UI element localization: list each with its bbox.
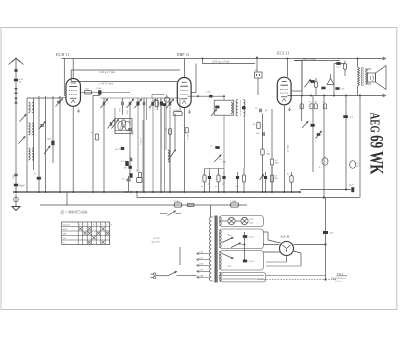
power transformer sec heater	[219, 273, 221, 282]
resistor box r1	[300, 104, 303, 109]
trimmer C5b	[44, 146, 50, 154]
svg-text:4,7 MΩ: 4,7 MΩ	[287, 145, 290, 152]
wire osc left	[58, 97, 66, 99]
wire dropper x138	[137, 98, 139, 172]
svg-text:3: 3	[88, 224, 89, 226]
trimmer C4	[57, 100, 61, 102]
wire row top link	[205, 168, 225, 170]
svg-text:0,4A: 0,4A	[249, 221, 254, 224]
resistor 200 grid stopper	[84, 91, 92, 94]
resistor 0,2M low2	[290, 176, 293, 183]
svg-text:0,1: 0,1	[201, 186, 203, 188]
capacitor 5000b	[129, 158, 131, 162]
dial lamp La2	[241, 217, 248, 224]
trimmer x138	[137, 102, 140, 106]
resistor row IF filters	[203, 175, 206, 182]
wire link row	[93, 95, 100, 97]
svg-text:0,001: 0,001	[150, 106, 152, 110]
switch S4	[170, 150, 176, 158]
svg-text:2: 2	[84, 224, 85, 226]
wire dropper x157.5	[157, 98, 159, 110]
switch Tast arrow	[222, 238, 233, 243]
wire x313 down	[312, 96, 314, 173]
svg-text:0,1: 0,1	[155, 107, 157, 109]
wire plate ECH11	[72, 59, 74, 79]
svg-text:50µ: 50µ	[115, 149, 118, 151]
wire link row2	[100, 97, 180, 99]
resistor 0,2k	[315, 82, 318, 88]
svg-text:1: 1	[182, 125, 183, 127]
junction AZ out	[324, 243, 326, 245]
svg-text:40µF: 40µF	[19, 184, 25, 187]
power transformer sec anode	[219, 230, 221, 248]
switch 5u	[260, 175, 264, 181]
svg-text:0,1µF: 0,1µF	[249, 237, 255, 239]
svg-text:8µF: 8µF	[330, 232, 335, 235]
coil L1a	[29, 102, 31, 112]
voltage selector taps	[197, 253, 210, 255]
svg-text:5: 5	[97, 224, 98, 226]
resistor 6,3k	[173, 112, 182, 116]
resistor 1M coupling	[261, 149, 264, 155]
junction dots bus	[15, 191, 17, 193]
speaker LS	[368, 73, 376, 82]
svg-text:5: 5	[138, 180, 139, 182]
IF transformer T2	[236, 100, 238, 117]
spark gap 2	[14, 98, 18, 104]
wire dropper x180	[179, 98, 181, 112]
svg-text:≈ 6 V ≈: ≈ 6 V ≈	[335, 280, 342, 283]
coil L2a	[29, 123, 31, 135]
switch tone	[305, 80, 311, 88]
svg-text:5000: 5000	[128, 162, 130, 166]
svg-text:0,1: 0,1	[91, 132, 94, 134]
resistor 0,2M	[270, 159, 273, 165]
svg-text:0,1 5: 0,1 5	[215, 186, 219, 188]
wire x360 down	[359, 96, 361, 198]
capacitor 50pF mid	[215, 146, 219, 149]
wire grid ECH11 top	[63, 59, 65, 97]
capacitor 0,1uF osc	[37, 177, 41, 180]
wire antenna lead	[15, 72, 17, 192]
resistor 0,1 det	[155, 100, 158, 107]
capacitor 0,1 lm	[127, 178, 131, 180]
wire dropper x143	[142, 120, 144, 192]
svg-text:240V 36 mA: 240V 36 mA	[302, 58, 316, 61]
junction antenna-bus	[15, 191, 17, 193]
capacitor 50uF	[121, 147, 124, 150]
wire x301 down	[301, 96, 303, 122]
junction bottom	[324, 278, 326, 280]
svg-text:2,0V 1g 1,7 mA: 2,0V 1g 1,7 mA	[212, 61, 230, 64]
wire dropper x146.5	[146, 98, 148, 120]
capacitor C9 5000	[128, 102, 130, 106]
svg-text:40: 40	[315, 101, 317, 104]
svg-text:Dkpf: Dkpf	[46, 138, 51, 141]
Tast box 1	[220, 229, 263, 249]
svg-text:MΩ: MΩ	[266, 154, 271, 156]
wire dropper x137	[136, 192, 138, 198]
capacitor k1	[129, 173, 132, 178]
capacitor Tast2	[243, 260, 247, 263]
wire rail x186	[192, 92, 197, 94]
wire AZ cathode out	[294, 244, 326, 246]
tube AZ11	[280, 242, 294, 256]
switch mains gang	[160, 213, 168, 215]
Tast box 2	[220, 251, 263, 271]
resistor 0,2M low	[270, 175, 273, 182]
wire T2 down	[244, 116, 246, 169]
capacitor oval r2	[350, 161, 356, 169]
wire link top coils	[27, 97, 60, 99]
wire dropper x115	[114, 108, 116, 133]
wire output bus	[288, 95, 385, 97]
capacitor C12	[159, 102, 161, 106]
capacitor 25uF	[98, 90, 101, 94]
capacitor tone	[310, 80, 314, 83]
svg-text:0,1: 0,1	[122, 179, 125, 181]
switch S1 wave	[20, 115, 27, 122]
svg-text:Zf = 468/473 kHz: Zf = 468/473 kHz	[61, 210, 88, 214]
mains plug	[153, 273, 155, 275]
capacitor C8	[121, 102, 123, 106]
wire x334 down	[333, 64, 335, 96]
wire fw2 link	[333, 279, 336, 281]
switch S2 wave	[18, 137, 25, 144]
input TA box	[255, 72, 263, 78]
svg-text:3,4V g 2,7 mA: 3,4V g 2,7 mA	[99, 71, 115, 74]
coil box L4	[115, 119, 132, 134]
trimmer x170	[168, 102, 170, 106]
svg-text:0,1: 0,1	[309, 102, 312, 104]
wire cathode ECH11	[72, 106, 74, 192]
capacitor 100pF	[14, 173, 18, 175]
resistor 1M	[125, 161, 128, 166]
capacitor x161	[160, 102, 163, 106]
heater box	[220, 273, 266, 282]
wire x262 down	[262, 114, 264, 150]
tube ECH11	[66, 79, 81, 107]
wire cathode EBF11	[184, 108, 186, 193]
wire AZ anode2	[263, 251, 280, 253]
svg-text:8µF+: 8µF+	[349, 184, 355, 187]
svg-text:5k: 5k	[323, 102, 325, 104]
wire main ground bus	[13, 191, 300, 193]
wire mains	[156, 275, 168, 277]
fuse Si2	[188, 204, 195, 207]
capacitor Dkpf	[51, 141, 54, 145]
heater arrow ECH	[77, 109, 79, 113]
wire AVC line	[71, 81, 177, 83]
capacitor blob r	[311, 124, 315, 127]
capacitor C11	[151, 102, 153, 106]
switch mains	[168, 272, 177, 276]
svg-text:1: 1	[79, 224, 80, 226]
alignment table	[62, 222, 110, 245]
wire rail x60	[59, 96, 61, 192]
svg-text:pF: pF	[18, 81, 22, 84]
wire HT feed	[300, 189, 351, 191]
svg-text:0,2: 0,2	[287, 174, 290, 176]
svg-text:ECL 11: ECL 11	[276, 51, 290, 56]
capacitor 40uF	[14, 184, 18, 187]
trimmer C5	[40, 124, 44, 126]
trimmer C7	[109, 122, 111, 126]
wire grid ECL11	[287, 59, 289, 77]
resistor 4,9k	[257, 122, 260, 129]
capacitor det1	[163, 103, 167, 106]
wire AZ plate top	[263, 231, 268, 233]
dial lamp La1	[228, 217, 235, 224]
capacitor 5000pF	[128, 128, 132, 130]
heater arrow ECL	[288, 107, 290, 111]
capacitor arrow r	[317, 133, 321, 136]
svg-text:ECH 11: ECH 11	[55, 52, 69, 57]
svg-text:Spg·10 W: Spg·10 W	[152, 241, 162, 243]
wire x346 down	[345, 96, 347, 190]
svg-text:6,3kΩ: 6,3kΩ	[174, 110, 180, 112]
ground symbol main	[12, 207, 20, 211]
wire transformer top	[210, 205, 212, 217]
wire heater bus	[137, 197, 360, 199]
svg-text:0,1MΩ: 0,1MΩ	[174, 201, 181, 203]
resistor box r3	[323, 104, 326, 109]
wire AZ anode1	[263, 244, 279, 246]
wire dial lamp line	[40, 204, 247, 206]
capacitor 8uF b	[351, 187, 354, 192]
wire speaker links	[366, 68, 372, 70]
wire dropper x202	[202, 59, 204, 64]
wire rail x53	[52, 96, 54, 163]
svg-text:77 kΩ: 77 kΩ	[188, 134, 190, 140]
svg-text:100: 100	[124, 168, 127, 170]
wire rail x170	[169, 134, 171, 192]
resistor k2	[139, 172, 142, 178]
wire rail x27	[26, 98, 28, 192]
svg-text:A Z 11: A Z 11	[280, 235, 290, 239]
power transformer sec anode2	[219, 252, 221, 270]
svg-text:LW: LW	[62, 238, 66, 240]
wire plate EBF11	[184, 59, 186, 78]
resistor top right	[344, 64, 347, 70]
resistor under EBF	[185, 127, 188, 133]
capacitor 5nF r	[343, 115, 348, 118]
wire heater AZ	[266, 275, 326, 277]
wire cathode ECL11	[284, 105, 286, 192]
wire rail x45	[45, 96, 47, 192]
wire screen line	[71, 69, 180, 71]
capacitor Tast	[243, 235, 247, 238]
svg-text:KLU: KLU	[62, 229, 68, 231]
capacitor 500pF	[262, 132, 264, 136]
svg-text:6,3V: 6,3V	[249, 219, 254, 221]
svg-text:FW 2: FW 2	[336, 272, 344, 276]
wire dropper x67	[66, 192, 68, 205]
antenna A1	[9, 58, 24, 72]
capacitor oval r1	[322, 158, 328, 166]
capacitor 5nF b	[335, 87, 339, 90]
svg-text:≈110 V: ≈110 V	[153, 237, 160, 240]
svg-text:MΩ: MΩ	[274, 163, 279, 165]
wire x302 down	[301, 61, 303, 96]
svg-text:4: 4	[93, 223, 94, 226]
resistor box r2	[310, 104, 313, 109]
wire anode annotation line	[203, 63, 256, 65]
svg-text:8: 8	[111, 224, 112, 226]
svg-text:EBF 11: EBF 11	[176, 52, 190, 57]
capacitor 100b	[129, 166, 132, 169]
IF transformer T1 box	[214, 100, 234, 115]
power transformer sec 6,3V	[219, 217, 221, 226]
wire mains drop	[179, 247, 181, 265]
svg-text:0,1MΩ: 0,1MΩ	[230, 201, 237, 203]
capacitor variable C6	[102, 102, 104, 106]
output transformer core	[361, 67, 363, 86]
resistor 0,1M a	[174, 203, 182, 207]
wire rail x39	[38, 96, 40, 192]
svg-text:25µF: 25µF	[97, 88, 102, 90]
power transformer core	[214, 216, 216, 283]
svg-text:0,1µF: 0,1µF	[249, 261, 255, 263]
fuse Si	[14, 197, 19, 202]
capacitor C10	[142, 102, 144, 106]
wire T1 top	[188, 95, 224, 97]
svg-text:1 50: 1 50	[235, 186, 238, 188]
svg-text:MΩ: MΩ	[222, 162, 227, 164]
svg-text:6: 6	[102, 224, 103, 226]
capacitor 8uF a	[323, 231, 328, 234]
svg-text:≈ 9 mA: ≈ 9 mA	[139, 138, 142, 145]
wire ECH11 g2 right	[80, 92, 130, 94]
capacitor 50nF	[321, 87, 325, 90]
wire rail x93	[92, 96, 94, 193]
svg-text:1000: 1000	[119, 108, 121, 112]
wire bottom right bus	[258, 279, 333, 281]
wire x272 down	[271, 109, 273, 159]
wire TA drop	[256, 58, 258, 73]
capacitor 50nF top	[336, 62, 340, 65]
svg-text:0,1: 0,1	[34, 174, 37, 176]
diode circle	[164, 97, 169, 102]
lamp box	[220, 216, 263, 227]
resistor 100 box	[122, 120, 125, 127]
wire T1 down	[223, 115, 225, 168]
svg-text:4,7µF: 4,7µF	[206, 91, 212, 94]
svg-text:1,4V 5,7 mA: 1,4V 5,7 mA	[99, 83, 113, 86]
resistor 1k cath	[168, 129, 171, 135]
heater arrow EBF	[188, 110, 190, 114]
wire x324 down	[323, 96, 325, 198]
potentiometer 0,5M	[214, 155, 221, 162]
wire top HT bus	[62, 58, 385, 60]
svg-text:MΩ: MΩ	[274, 178, 279, 180]
junction x346	[345, 188, 347, 190]
wire ECL out	[292, 90, 302, 92]
wire rail x33	[33, 98, 35, 170]
wire dropper x170	[169, 98, 171, 192]
svg-text:0,1: 0,1	[319, 167, 322, 169]
svg-text:1k: 1k	[136, 170, 138, 172]
coil det	[168, 150, 170, 162]
wire rail x175	[174, 114, 176, 150]
svg-text:µ: µ	[315, 141, 316, 143]
spark gap	[14, 88, 18, 94]
svg-text:5000: 5000	[127, 110, 129, 114]
coil L3a	[29, 148, 31, 160]
svg-text:Tast: Tast	[228, 234, 232, 237]
junction x324 bus	[323, 196, 325, 198]
tube EBF11	[177, 78, 191, 108]
junction dots top	[202, 58, 204, 60]
svg-text:Bereich: Bereich	[63, 225, 70, 227]
capacitor 50pF c	[259, 109, 261, 113]
svg-text:MW: MW	[62, 234, 67, 236]
wire dropper x153	[152, 98, 154, 192]
power transformer primary	[210, 217, 212, 281]
switch r	[302, 122, 308, 129]
svg-text:Tast: Tast	[228, 265, 232, 268]
resistor 0,1M b	[231, 203, 239, 207]
capacitor 0,001	[151, 102, 153, 106]
switch Tast arrow2	[222, 254, 233, 259]
capacitor 250pF	[14, 79, 18, 82]
resistor box lm	[137, 178, 143, 183]
wire ECL screen line	[294, 60, 340, 62]
NFB network	[327, 79, 334, 85]
det feed line	[152, 94, 164, 96]
wire dropper x166	[165, 98, 167, 150]
wire dropper x161	[160, 98, 162, 192]
wire HT vertical x325	[325, 198, 327, 281]
output transformer secondary	[366, 69, 368, 84]
wire AZ bottom loop	[286, 256, 288, 262]
junction bus x137	[136, 191, 138, 193]
wire screen dropper	[70, 70, 72, 82]
tube ECL11	[277, 77, 291, 105]
wire tast vertical	[244, 232, 246, 262]
resistor box mid	[95, 134, 98, 140]
output transformer primary	[358, 67, 360, 86]
switch Tast	[231, 243, 241, 248]
capacitor antenna series	[14, 69, 17, 71]
